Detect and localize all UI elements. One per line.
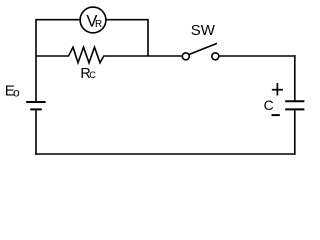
svg-text:R: R bbox=[95, 19, 102, 30]
svg-text:SW: SW bbox=[191, 22, 216, 39]
svg-text:C: C bbox=[264, 97, 274, 113]
svg-text:C: C bbox=[89, 70, 96, 80]
svg-text:o: o bbox=[13, 86, 20, 100]
